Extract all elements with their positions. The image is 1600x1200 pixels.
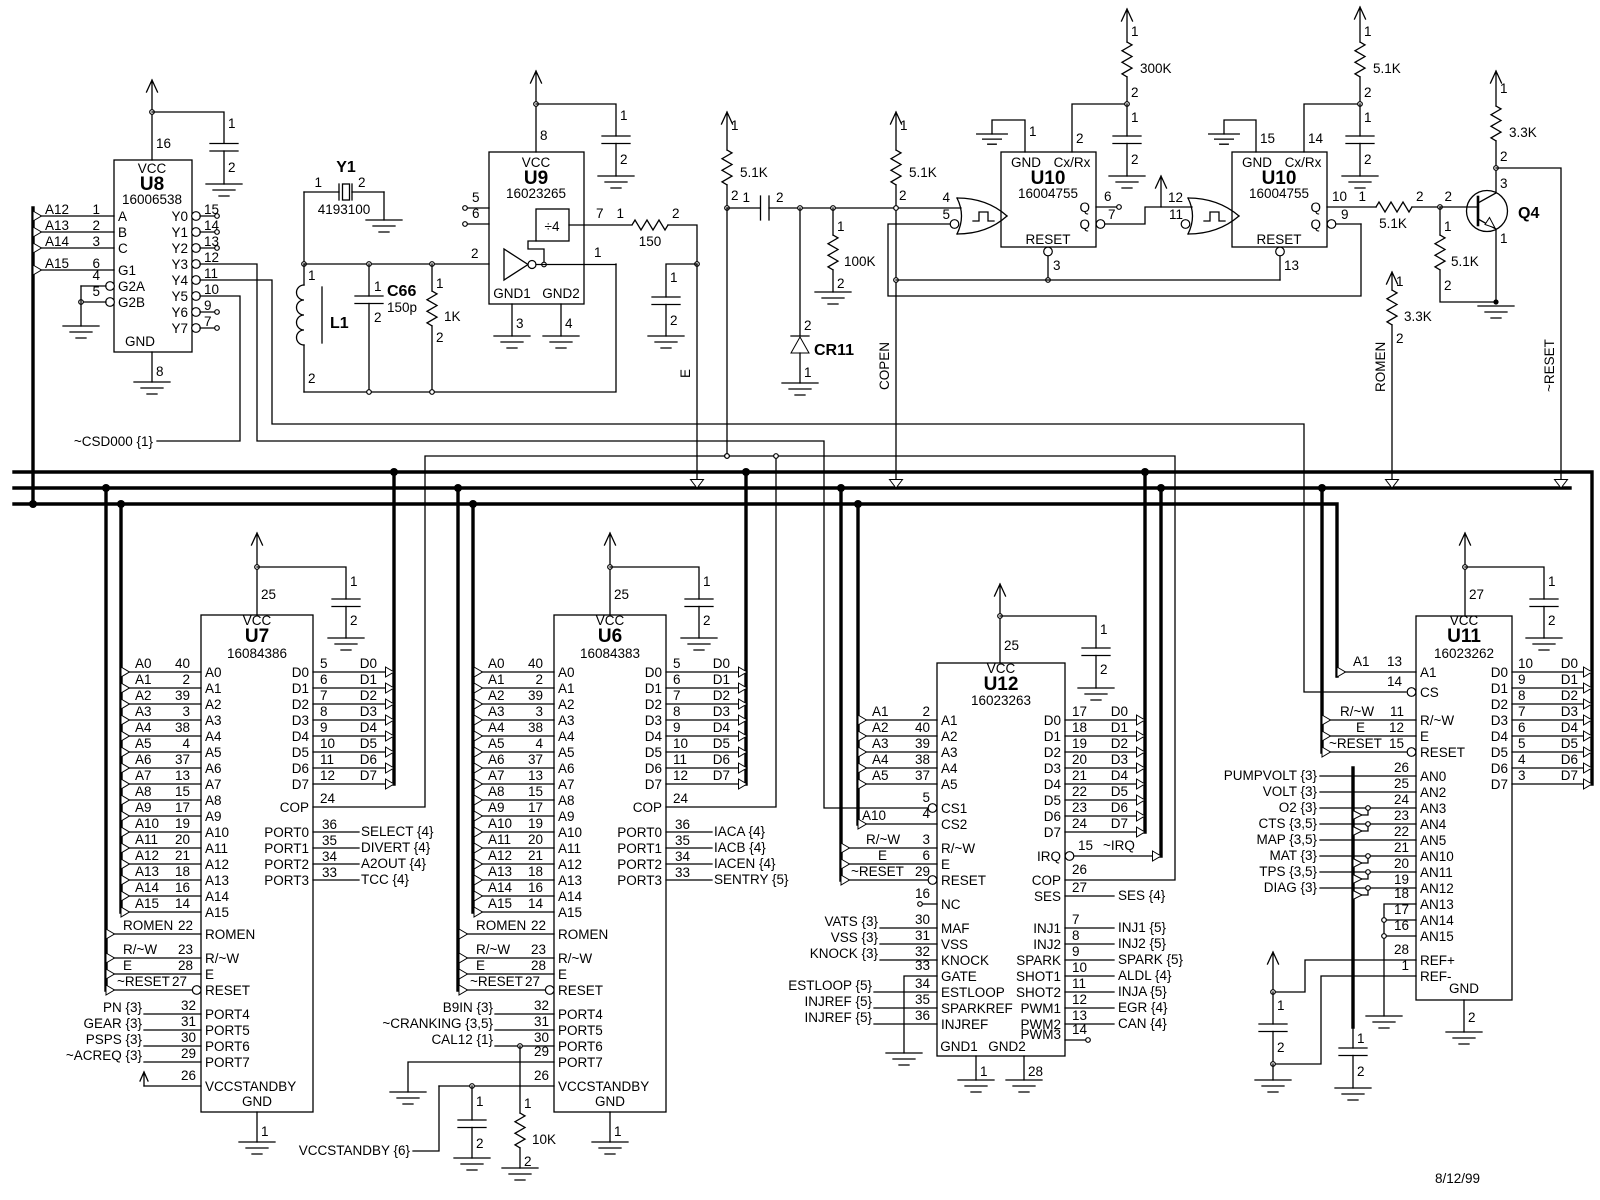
svg-text:DIVERT {4}: DIVERT {4}	[361, 840, 431, 855]
ground (Q4 emitter)	[1478, 306, 1514, 318]
svg-text:A0: A0	[135, 656, 152, 671]
svg-text:A7: A7	[558, 777, 575, 792]
U7 pin 40 A0	[121, 656, 201, 677]
svg-text:39: 39	[528, 688, 543, 703]
IC U8 16006538 3-to-8 decoder	[114, 160, 192, 352]
svg-text:1: 1	[900, 118, 908, 133]
svg-text:30: 30	[181, 1030, 196, 1045]
svg-text:Q: Q	[1079, 200, 1090, 215]
svg-text:PORT1: PORT1	[617, 841, 662, 856]
svg-text:10K: 10K	[532, 1132, 556, 1147]
svg-text:2: 2	[731, 188, 739, 203]
wire U7 address bus drop	[117, 500, 125, 912]
svg-text:8: 8	[673, 704, 681, 719]
svg-text:INJREF {5}: INJREF {5}	[804, 994, 872, 1009]
svg-text:2: 2	[1444, 278, 1452, 293]
svg-text:A15: A15	[45, 256, 69, 271]
wire VCC to bypass cap	[152, 112, 224, 143]
svg-text:CS1: CS1	[941, 801, 967, 816]
svg-text:5: 5	[92, 284, 100, 299]
crystal Y1 4193100	[304, 159, 384, 217]
svg-text:6: 6	[320, 672, 328, 687]
svg-text:8: 8	[320, 704, 328, 719]
svg-text:24: 24	[320, 791, 336, 806]
svg-text:REF+: REF+	[1420, 953, 1455, 968]
svg-text:R/~W: R/~W	[205, 951, 239, 966]
node ESTLOOP {5} to U12 pin 34	[788, 976, 937, 993]
node A13 input to U8	[33, 218, 114, 237]
ground (U12 GND1)	[958, 1080, 994, 1092]
wire COPEN line to control bus	[890, 185, 903, 488]
U9 pin 4 GND2	[561, 304, 573, 336]
svg-text:7: 7	[1072, 912, 1080, 927]
svg-text:8: 8	[1072, 928, 1080, 943]
node EGR {4} from U12 pin 12	[1065, 992, 1168, 1015]
wire U8 address bus drop	[29, 208, 37, 508]
svg-text:2: 2	[182, 672, 190, 687]
resistor 150	[616, 206, 679, 249]
node MAP {3,5} to U11 AN pin 22	[1256, 824, 1416, 847]
svg-text:28: 28	[1028, 1064, 1043, 1079]
U7 pin 8 D3	[313, 704, 394, 725]
U6 pin 13 A7	[474, 768, 554, 789]
svg-text:D6: D6	[713, 752, 730, 767]
svg-text:A13: A13	[45, 218, 69, 233]
svg-text:36: 36	[322, 817, 337, 832]
node INJREF {5} to U12 pin 35	[804, 992, 937, 1009]
U6 pin 14 A15	[474, 896, 554, 917]
ground (CR11)	[782, 383, 818, 395]
ground (U6 pin 1)	[592, 1142, 628, 1154]
U12 pin 19 D2	[1065, 736, 1145, 757]
svg-text:20: 20	[175, 832, 190, 847]
U11 pin 12 E	[1322, 720, 1416, 741]
capacitor C66 150p	[355, 264, 417, 392]
svg-text:E: E	[1356, 720, 1365, 735]
svg-text:D3: D3	[713, 704, 730, 719]
svg-text:D6: D6	[1044, 809, 1061, 824]
wire data bus (horizontal, top)	[14, 472, 1592, 784]
svg-text:1: 1	[1131, 24, 1139, 39]
svg-text:25: 25	[261, 587, 276, 602]
svg-text:11: 11	[1072, 976, 1086, 991]
svg-text:RESET: RESET	[1025, 232, 1070, 247]
svg-text:12: 12	[1168, 190, 1183, 205]
ground (U12 GATE)	[886, 1053, 922, 1065]
svg-text:PORT0: PORT0	[617, 825, 662, 840]
U12 pin 39 A3	[858, 736, 937, 757]
svg-text:3: 3	[182, 704, 190, 719]
svg-text:4193100: 4193100	[318, 202, 371, 217]
U10b pin 14 Cx/Rx	[1304, 104, 1360, 152]
wire 150 resistor to E node	[668, 225, 699, 266]
svg-text:37: 37	[528, 752, 543, 767]
svg-text:2: 2	[374, 310, 382, 325]
svg-text:R/~W: R/~W	[1340, 704, 1374, 719]
svg-text:24: 24	[1072, 816, 1088, 831]
svg-text:GND: GND	[1449, 981, 1479, 996]
svg-text:2: 2	[670, 313, 678, 328]
svg-text:E: E	[123, 958, 132, 973]
svg-text:16004755: 16004755	[1249, 186, 1309, 201]
svg-text:ESTLOOP: ESTLOOP	[941, 985, 1005, 1000]
divide-by-4 block (inside U9)	[536, 209, 569, 241]
U6 pin 25 VCC	[610, 567, 629, 615]
resistor 3.3K (ROMEN pull-up)	[1387, 274, 1432, 346]
U6 pin 38 A4	[474, 720, 554, 741]
wire U6 VCC to bypass cap	[610, 567, 699, 599]
ground (U11 GND)	[1446, 1032, 1482, 1044]
svg-text:MAP {3,5}: MAP {3,5}	[1256, 832, 1317, 847]
svg-text:Y0: Y0	[171, 209, 188, 224]
wire U11 control bus drop	[1318, 484, 1326, 752]
U7 pin 11 D6	[313, 752, 394, 773]
svg-text:22: 22	[531, 918, 546, 933]
svg-text:D3: D3	[1111, 752, 1128, 767]
svg-text:RESET: RESET	[941, 873, 986, 888]
wire U6 COP riser	[666, 454, 778, 807]
transistor Q4	[1440, 168, 1539, 302]
U12 pin 29 ~RESET	[841, 864, 937, 885]
U8 pin 12 Y3	[192, 250, 219, 268]
U11 pin 4 D6	[1512, 752, 1592, 773]
svg-text:25: 25	[614, 587, 629, 602]
svg-text:PSPS {3}: PSPS {3}	[86, 1032, 143, 1047]
svg-text:AN13: AN13	[1420, 897, 1454, 912]
svg-text:2: 2	[1444, 189, 1452, 204]
U7 pin 28 E	[106, 958, 201, 979]
svg-text:13: 13	[204, 234, 219, 249]
svg-text:PORT7: PORT7	[558, 1055, 603, 1070]
svg-text:C66: C66	[387, 283, 416, 300]
svg-text:35: 35	[322, 833, 337, 848]
svg-text:IACA {4}: IACA {4}	[714, 824, 766, 839]
svg-text:A14: A14	[135, 880, 160, 895]
svg-text:COP: COP	[633, 800, 662, 815]
NOR gate (U10 input gate B) with schmitt symbol	[1168, 190, 1239, 234]
svg-text:~RESET: ~RESET	[851, 864, 904, 879]
svg-text:17: 17	[175, 800, 190, 815]
svg-text:GND: GND	[595, 1094, 625, 1109]
svg-text:1: 1	[1100, 622, 1108, 637]
svg-text:D7: D7	[645, 777, 662, 792]
svg-text:2: 2	[1548, 613, 1556, 628]
svg-text:~RESET: ~RESET	[1329, 736, 1382, 751]
U7 pin 26 VCCSTANDBY	[144, 1068, 201, 1086]
svg-text:30: 30	[915, 912, 930, 927]
svg-text:22: 22	[178, 918, 193, 933]
svg-text:2: 2	[436, 330, 444, 345]
svg-text:RESET: RESET	[1420, 745, 1465, 760]
U7 pin 19 A10	[121, 816, 201, 837]
svg-text:A6: A6	[488, 752, 505, 767]
U8 pin 16 VCC	[152, 112, 171, 160]
svg-text:÷4: ÷4	[545, 219, 560, 234]
svg-text:2: 2	[1357, 1064, 1365, 1079]
resistor 5.1K (Q4 base series)	[1376, 189, 1442, 231]
U10a pin 3 RESET	[1044, 247, 1061, 282]
svg-text:A1: A1	[205, 681, 222, 696]
svg-text:11: 11	[1169, 207, 1183, 222]
svg-text:9: 9	[1072, 944, 1080, 959]
U8 pin 8 GND	[152, 352, 164, 382]
svg-text:D4: D4	[292, 729, 310, 744]
wire U12 VCC to bypass cap	[1000, 616, 1096, 648]
svg-text:G2A: G2A	[118, 279, 145, 294]
U12 pin 18 D1	[1065, 720, 1145, 741]
svg-text:AN0: AN0	[1420, 769, 1446, 784]
wire U7 control bus drop	[102, 484, 110, 990]
U8 pin 4 G2A	[81, 268, 114, 290]
svg-text:2: 2	[476, 1136, 484, 1151]
svg-text:11: 11	[1390, 704, 1404, 719]
ground (U8 bypass cap)	[206, 184, 242, 196]
U12 pin 2 A1	[858, 704, 937, 725]
svg-text:16023265: 16023265	[506, 186, 566, 201]
svg-text:34: 34	[322, 849, 338, 864]
node COP junction	[725, 454, 730, 459]
svg-text:5: 5	[942, 207, 950, 222]
svg-text:7: 7	[596, 206, 604, 221]
ground (VCCSTANDBY cap)	[454, 1158, 490, 1170]
capacitor U9 bypass	[602, 108, 630, 176]
svg-text:D7: D7	[292, 777, 309, 792]
svg-text:1: 1	[594, 245, 602, 260]
U12 pin 16 NC	[915, 886, 937, 906]
svg-text:3.3K: 3.3K	[1404, 309, 1432, 324]
svg-text:A5: A5	[135, 736, 152, 751]
svg-text:CR11: CR11	[814, 342, 854, 359]
svg-text:1: 1	[1358, 189, 1366, 204]
U7 pin 20 A11	[121, 832, 201, 853]
svg-text:A9: A9	[205, 809, 222, 824]
svg-text:5.1K: 5.1K	[740, 165, 768, 180]
svg-text:40: 40	[915, 720, 930, 735]
U11 pin 14 CS	[1387, 674, 1416, 696]
svg-text:2: 2	[1076, 131, 1084, 146]
svg-text:Y5: Y5	[171, 289, 188, 304]
svg-text:150p: 150p	[387, 300, 417, 315]
svg-text:A11: A11	[135, 832, 158, 847]
svg-text:A2: A2	[558, 697, 575, 712]
svg-text:D3: D3	[360, 704, 377, 719]
IC U12 16023263 I/O	[937, 661, 1065, 1056]
svg-text:1: 1	[92, 202, 100, 217]
node SES {4} from U12 pin 27	[1065, 880, 1166, 903]
U11 pin 27 VCC	[1465, 567, 1484, 616]
svg-text:A6: A6	[558, 761, 575, 776]
svg-text:3: 3	[922, 832, 930, 847]
svg-text:D0: D0	[1111, 704, 1128, 719]
svg-text:4: 4	[182, 736, 190, 751]
svg-text:A0: A0	[205, 665, 222, 680]
node CTS {3,5} to U11 AN pin 23	[1258, 808, 1416, 836]
svg-text:AN3: AN3	[1420, 801, 1446, 816]
svg-text:18: 18	[528, 864, 543, 879]
U11 pin 9 D1	[1512, 672, 1592, 693]
svg-text:31: 31	[534, 1014, 549, 1029]
svg-text:PORT4: PORT4	[558, 1007, 603, 1022]
svg-text:16084386: 16084386	[227, 646, 287, 661]
svg-text:AN10: AN10	[1420, 849, 1454, 864]
svg-text:2: 2	[1131, 85, 1139, 100]
node COPEN label	[877, 342, 892, 390]
node A15 input to U8	[33, 256, 114, 275]
wire U12 IRQ control bus drop	[1157, 484, 1165, 856]
svg-text:300K: 300K	[1140, 61, 1172, 76]
svg-text:13: 13	[528, 768, 543, 783]
wire U7 data bus drop	[390, 468, 398, 784]
svg-text:6: 6	[922, 848, 930, 863]
U6 pin 10 D5	[666, 736, 747, 757]
U7 pin 17 A9	[121, 800, 201, 821]
svg-text:16084383: 16084383	[580, 646, 640, 661]
U8 pin 11 Y4	[192, 266, 218, 284]
svg-text:34: 34	[675, 849, 691, 864]
svg-text:2: 2	[922, 704, 930, 719]
svg-text:Q: Q	[1310, 200, 1321, 215]
resistor 5.1K (Q4 base pull-down)	[1435, 207, 1499, 305]
wire address bus (horizontal, bottom)	[14, 504, 1337, 676]
svg-text:A1: A1	[1420, 665, 1437, 680]
node KNOCK {3} to U12 pin 32	[810, 944, 937, 961]
svg-text:KNOCK {3}: KNOCK {3}	[810, 946, 879, 961]
U6 pin 37 A6	[474, 752, 554, 773]
svg-text:1: 1	[308, 268, 316, 283]
svg-text:32: 32	[181, 998, 196, 1013]
svg-text:D0: D0	[1044, 713, 1061, 728]
svg-text:5: 5	[1518, 736, 1526, 751]
svg-text:8: 8	[540, 128, 548, 143]
U12 pin 25 VCC	[1000, 616, 1019, 663]
svg-text:A5: A5	[941, 777, 958, 792]
svg-text:PORT3: PORT3	[264, 873, 309, 888]
svg-text:INJA {5}: INJA {5}	[1118, 984, 1167, 999]
svg-text:2: 2	[228, 160, 236, 175]
wire Y3 to U12 CS1	[200, 264, 928, 808]
node DIAG {3} to U11 AN pin 19	[1264, 872, 1416, 900]
svg-text:GND: GND	[125, 334, 155, 349]
U12 pin 21 D4	[1065, 768, 1145, 789]
svg-text:D1: D1	[292, 681, 309, 696]
U12 pin 20 D3	[1065, 752, 1145, 773]
svg-text:GEAR {3}: GEAR {3}	[83, 1016, 142, 1031]
svg-text:7: 7	[1108, 207, 1116, 222]
U9 pin 5	[463, 190, 489, 210]
svg-text:13: 13	[1284, 258, 1299, 273]
U11 pin 6 D4	[1512, 720, 1592, 741]
node ~RESET label	[1542, 339, 1557, 392]
U10b pin 10 Q	[1327, 189, 1376, 207]
capacitor (analog bus filter)	[1339, 1027, 1367, 1088]
U7 pin 35 PORT1 (DIVERT {4})	[313, 833, 431, 855]
svg-text:D5: D5	[360, 736, 377, 751]
U10a pin 2 Cx/Rx	[1072, 104, 1127, 152]
svg-text:A6: A6	[205, 761, 222, 776]
svg-text:D3: D3	[1044, 761, 1061, 776]
svg-text:1: 1	[1357, 1031, 1365, 1046]
ground (U10a pin 1)	[977, 134, 1008, 144]
svg-text:MAF: MAF	[941, 921, 970, 936]
svg-text:1: 1	[476, 1094, 484, 1109]
svg-text:Y3: Y3	[171, 257, 188, 272]
svg-text:CTS {3,5}: CTS {3,5}	[1258, 816, 1317, 831]
svg-text:22: 22	[1072, 784, 1087, 799]
svg-text:D4: D4	[1111, 768, 1129, 783]
U12 pin 4 CS2 (A10)	[858, 806, 937, 829]
node INJ2 {5} from U12 pin 8	[1065, 928, 1167, 951]
svg-text:ALDL {4}: ALDL {4}	[1118, 968, 1172, 983]
resistor 300K	[1122, 24, 1172, 106]
svg-text:12: 12	[1072, 992, 1087, 1007]
ground (10K)	[502, 1168, 538, 1180]
svg-text:E: E	[1420, 729, 1429, 744]
svg-text:D4: D4	[1561, 720, 1579, 735]
svg-text:10: 10	[1518, 656, 1533, 671]
svg-text:D2: D2	[1044, 745, 1061, 760]
svg-text:E: E	[558, 967, 567, 982]
capacitor U7 bypass	[332, 574, 360, 638]
svg-text:29: 29	[915, 864, 930, 879]
svg-text:33: 33	[675, 865, 690, 880]
svg-text:A3: A3	[135, 704, 152, 719]
svg-text:A9: A9	[488, 800, 505, 815]
svg-text:A8: A8	[558, 793, 575, 808]
U12 pin 24 D7	[1065, 816, 1145, 837]
svg-text:GND2: GND2	[542, 286, 580, 301]
svg-text:GND1: GND1	[940, 1039, 978, 1054]
svg-text:13: 13	[175, 768, 190, 783]
svg-text:D6: D6	[1491, 761, 1508, 776]
U7 pin 14 A15	[121, 896, 201, 917]
svg-text:Y1: Y1	[336, 159, 356, 176]
svg-text:VOLT {3}: VOLT {3}	[1263, 784, 1318, 799]
svg-text:D2: D2	[1111, 736, 1128, 751]
U7 pin 3 A3	[121, 704, 201, 725]
wire U11 analog input bus	[1351, 768, 1354, 1027]
svg-text:PORT0: PORT0	[264, 825, 309, 840]
IC U7 16084386	[201, 613, 313, 1112]
U11 pin 18 AN13 to ground	[1384, 886, 1416, 1016]
svg-text:D0: D0	[713, 656, 730, 671]
U6 pin 15 A8	[474, 784, 554, 805]
svg-text:5.1K: 5.1K	[909, 165, 937, 180]
svg-text:28: 28	[178, 958, 193, 973]
capacitor (E node filter)	[652, 264, 697, 336]
svg-text:16: 16	[915, 886, 930, 901]
svg-text:1: 1	[1548, 574, 1556, 589]
svg-text:C: C	[118, 241, 128, 256]
svg-text:D5: D5	[1044, 793, 1061, 808]
wire inverter output to divider feedback	[528, 241, 584, 267]
U12 pin 23 D6	[1065, 800, 1145, 821]
svg-text:~RESET: ~RESET	[1542, 339, 1557, 392]
svg-text:A10: A10	[135, 816, 159, 831]
svg-text:D2: D2	[292, 697, 309, 712]
svg-text:A5: A5	[558, 745, 575, 760]
svg-text:D0: D0	[645, 665, 662, 680]
ground (U9 GND1)	[494, 336, 530, 348]
U7 pin 7 D2	[313, 688, 394, 709]
U11 pin 8 D2	[1512, 688, 1592, 709]
svg-text:A10: A10	[488, 816, 512, 831]
svg-text:A12: A12	[45, 202, 69, 217]
svg-text:CAN {4}: CAN {4}	[1118, 1016, 1167, 1031]
U6 pin 1 GND	[610, 1112, 622, 1142]
wire U12 address bus drop	[854, 500, 862, 824]
U12 pin 17 D0	[1065, 704, 1145, 725]
svg-text:1: 1	[1131, 110, 1139, 125]
